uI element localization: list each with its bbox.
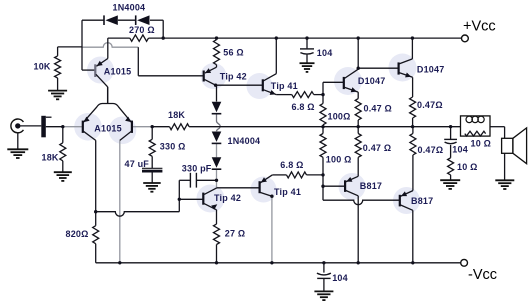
svg-text:Tip 41: Tip 41 (274, 187, 301, 197)
svg-text:A1015: A1015 (104, 66, 132, 76)
svg-text:D1047: D1047 (417, 64, 445, 74)
svg-text:6.8 Ω: 6.8 Ω (292, 102, 315, 112)
svg-text:104: 104 (452, 145, 468, 155)
svg-text:27 Ω: 27 Ω (225, 229, 246, 239)
svg-text:1N4004: 1N4004 (113, 3, 146, 13)
svg-text:0.47 Ω: 0.47 Ω (363, 143, 391, 153)
svg-text:270 Ω: 270 Ω (129, 25, 155, 35)
svg-text:56 Ω: 56 Ω (223, 48, 244, 58)
svg-text:Tip 41: Tip 41 (271, 81, 298, 91)
svg-text:A1015: A1015 (94, 124, 122, 134)
svg-text:10 Ω: 10 Ω (471, 139, 492, 149)
svg-text:6.8 Ω: 6.8 Ω (280, 160, 303, 170)
svg-text:330 pF: 330 pF (182, 164, 212, 174)
svg-text:104: 104 (332, 273, 348, 283)
svg-text:D1047: D1047 (358, 76, 386, 86)
svg-text:10K: 10K (34, 62, 51, 72)
svg-text:Tip 42: Tip 42 (214, 193, 241, 203)
svg-text:0.47 Ω: 0.47 Ω (364, 104, 392, 114)
svg-text:820Ω: 820Ω (66, 229, 89, 239)
svg-text:0.47Ω: 0.47Ω (417, 100, 443, 110)
svg-text:100 Ω: 100 Ω (326, 155, 352, 165)
svg-text:+Vcc: +Vcc (463, 18, 496, 34)
svg-text:B817: B817 (411, 196, 433, 206)
svg-text:104: 104 (317, 48, 333, 58)
svg-text:B817: B817 (360, 181, 382, 191)
svg-text:10 Ω: 10 Ω (457, 162, 478, 172)
svg-text:330 Ω: 330 Ω (160, 142, 186, 152)
svg-text:-Vcc: -Vcc (468, 267, 497, 283)
svg-text:100Ω: 100Ω (328, 112, 351, 122)
svg-text:0.47Ω: 0.47Ω (418, 145, 444, 155)
svg-text:1N4004: 1N4004 (228, 136, 261, 146)
svg-text:Tip 42: Tip 42 (220, 72, 247, 82)
svg-text:47 uF: 47 uF (125, 159, 150, 169)
svg-text:18K: 18K (168, 110, 185, 120)
svg-text:18K: 18K (42, 153, 59, 163)
